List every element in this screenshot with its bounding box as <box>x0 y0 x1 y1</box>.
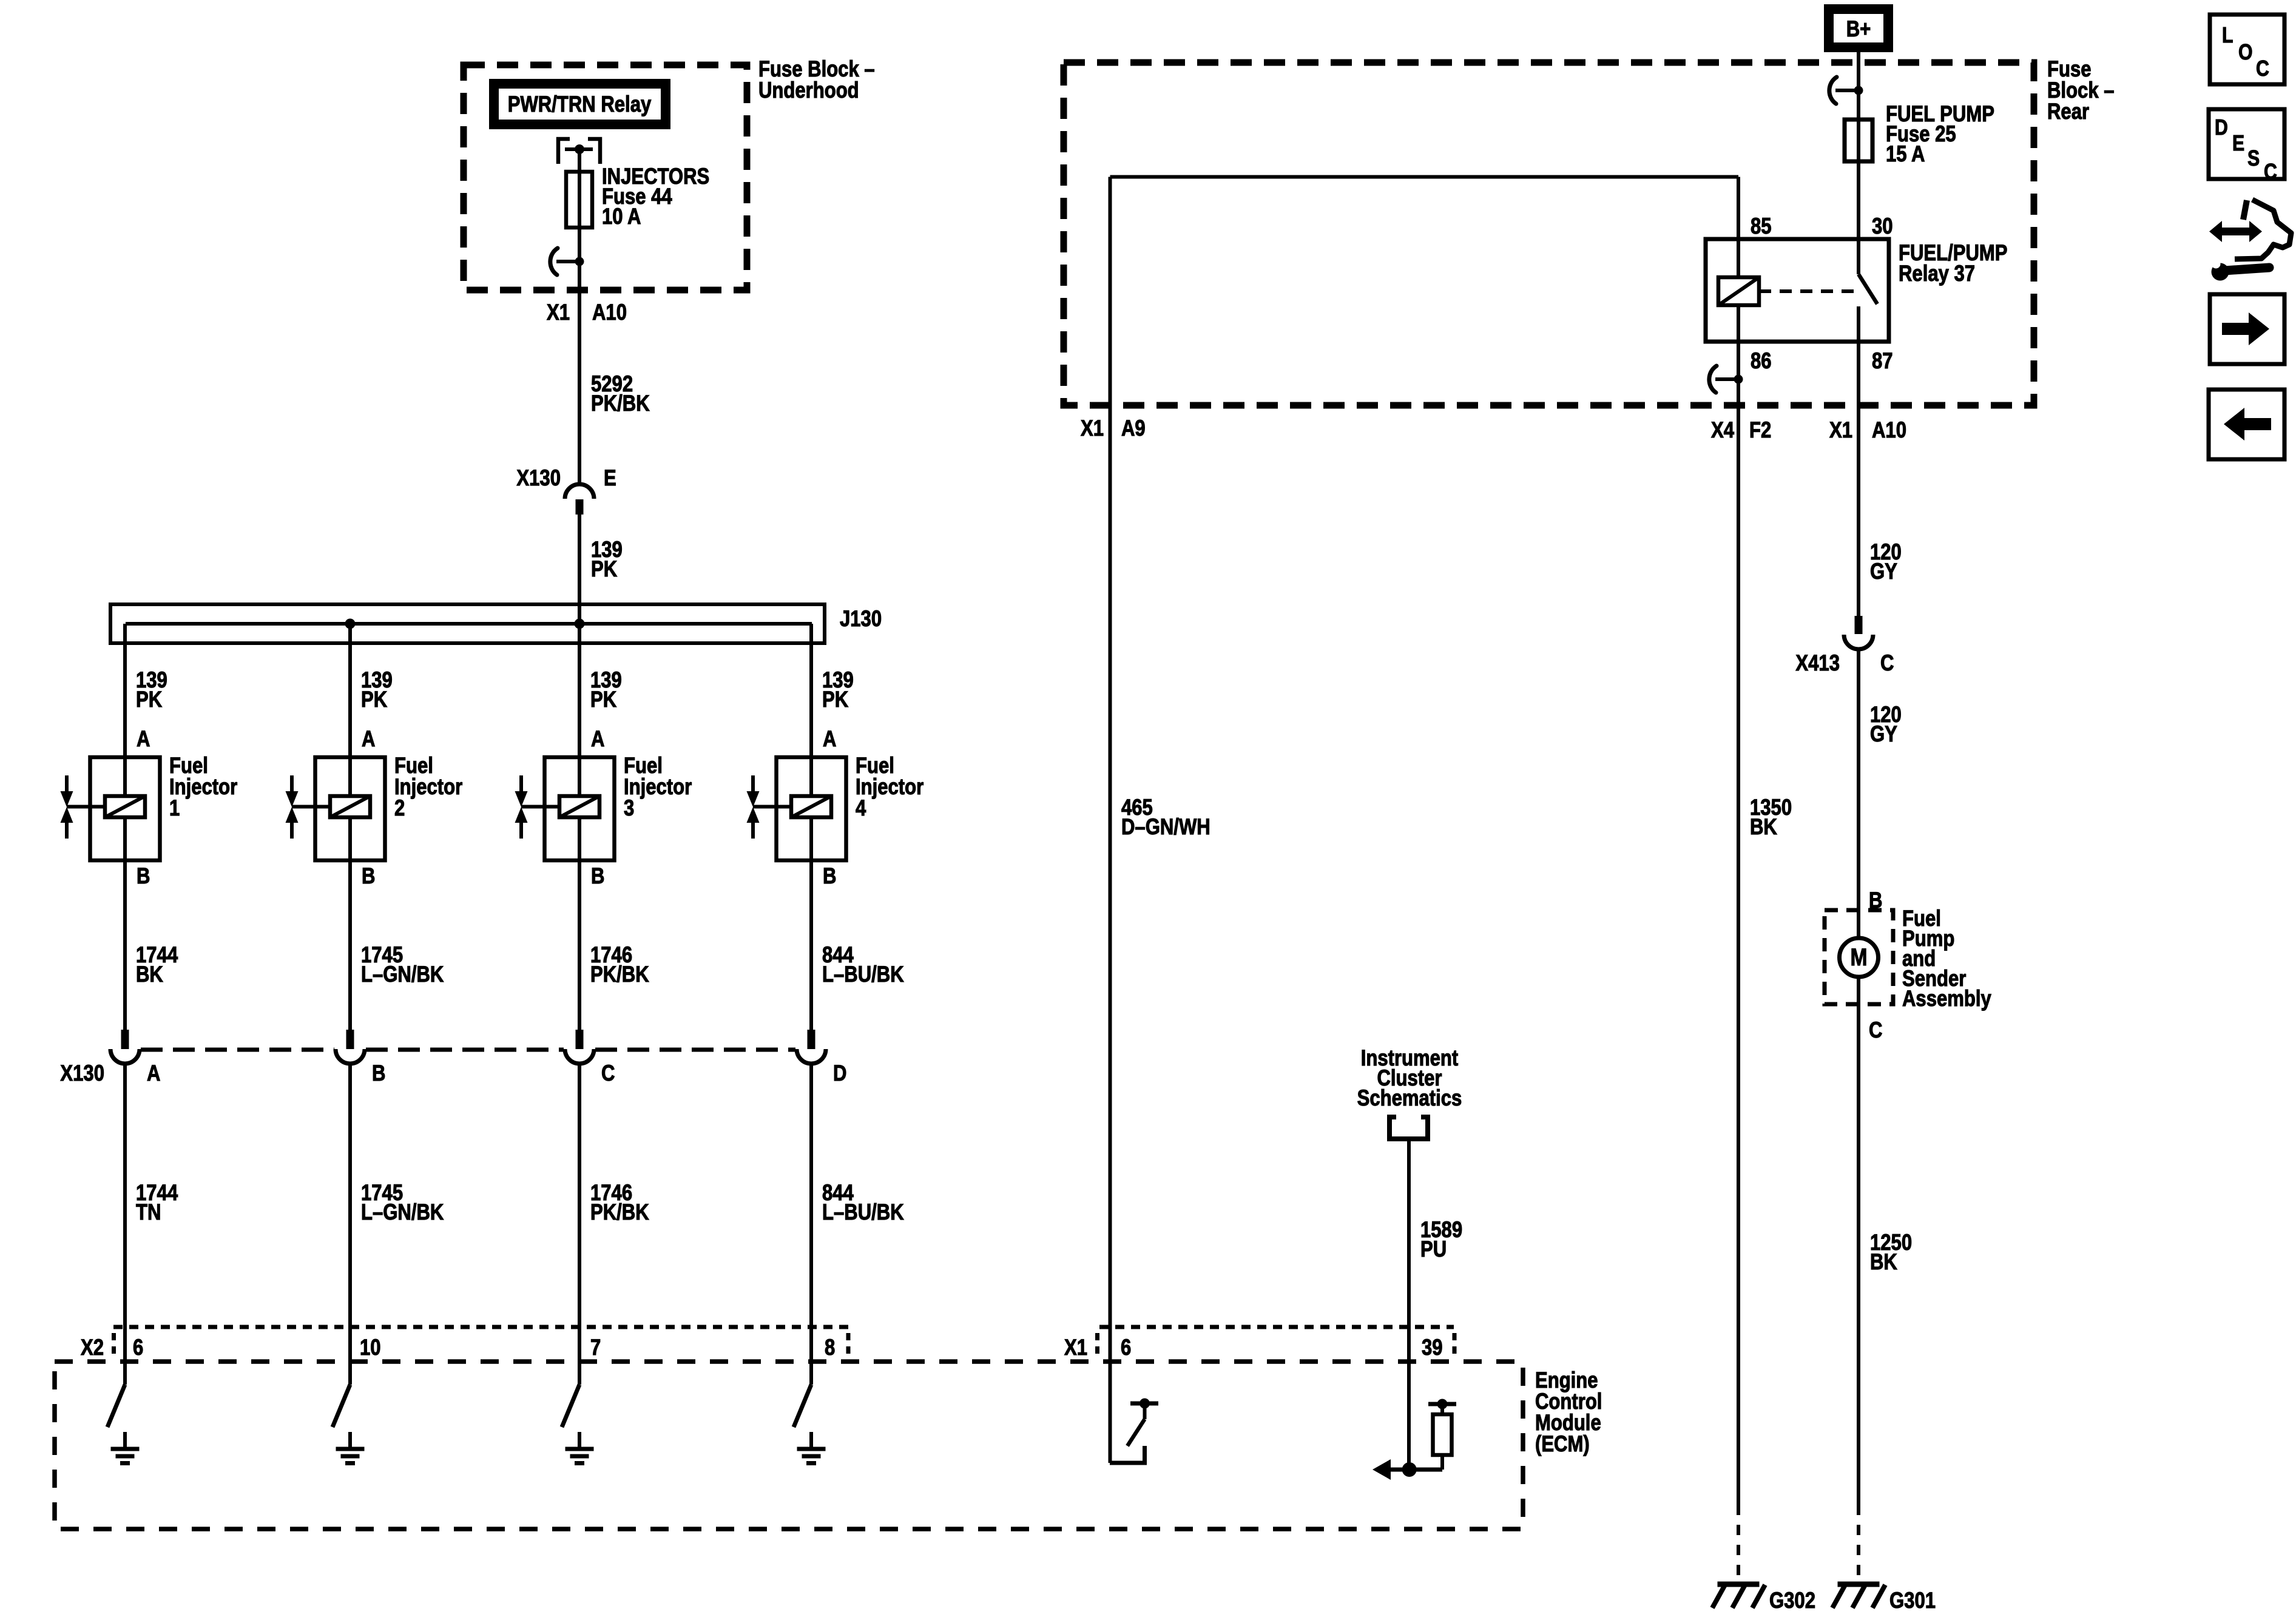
svg-text:PK/BK: PK/BK <box>590 962 649 987</box>
svg-text:X1: X1 <box>1064 1335 1087 1360</box>
svg-text:C: C <box>2264 160 2277 184</box>
svg-text:D–GN/WH: D–GN/WH <box>1121 815 1210 840</box>
svg-text:L–BU/BK: L–BU/BK <box>822 962 904 987</box>
svg-text:C: C <box>1880 651 1894 676</box>
svg-text:O: O <box>2238 41 2253 65</box>
svg-text:L: L <box>2222 24 2233 48</box>
svg-text:1: 1 <box>169 796 180 821</box>
svg-text:3: 3 <box>624 796 634 821</box>
svg-text:B+: B+ <box>1846 17 1871 42</box>
svg-text:6: 6 <box>1121 1335 1131 1360</box>
svg-text:L–GN/BK: L–GN/BK <box>361 962 444 987</box>
svg-text:D: D <box>2215 116 2228 140</box>
svg-text:B: B <box>372 1061 385 1086</box>
svg-text:Underhood: Underhood <box>758 78 859 103</box>
svg-text:30: 30 <box>1872 214 1893 239</box>
svg-text:G302: G302 <box>1769 1588 1815 1613</box>
svg-text:4: 4 <box>856 796 866 821</box>
svg-text:A10: A10 <box>592 300 627 325</box>
svg-text:86: 86 <box>1751 349 1772 374</box>
svg-text:85: 85 <box>1751 214 1772 239</box>
svg-text:L–BU/BK: L–BU/BK <box>822 1200 904 1225</box>
svg-text:C: C <box>601 1061 615 1086</box>
svg-text:PU: PU <box>1420 1237 1447 1262</box>
svg-text:C: C <box>1869 1018 1882 1043</box>
svg-text:15 A: 15 A <box>1886 142 1925 167</box>
svg-text:GY: GY <box>1870 559 1897 584</box>
svg-text:X1: X1 <box>1081 416 1104 441</box>
svg-text:PK: PK <box>136 687 162 712</box>
svg-text:A: A <box>823 727 836 752</box>
svg-text:B: B <box>362 864 375 889</box>
svg-text:Assembly: Assembly <box>1902 987 1991 1011</box>
svg-text:A: A <box>137 727 150 752</box>
svg-text:Rear: Rear <box>2047 100 2089 124</box>
svg-text:PK: PK <box>822 687 848 712</box>
svg-text:B: B <box>823 864 836 889</box>
svg-text:PK: PK <box>590 687 616 712</box>
svg-text:X4: X4 <box>1711 418 1734 443</box>
svg-text:A: A <box>591 727 604 752</box>
svg-text:39: 39 <box>1422 1335 1443 1360</box>
svg-text:D: D <box>833 1061 846 1086</box>
svg-text:G301: G301 <box>1889 1588 1936 1613</box>
svg-text:10: 10 <box>360 1335 381 1360</box>
svg-text:PK: PK <box>591 557 617 582</box>
svg-text:X2: X2 <box>81 1335 104 1360</box>
svg-text:2: 2 <box>394 796 405 821</box>
svg-text:L–GN/BK: L–GN/BK <box>361 1200 444 1225</box>
svg-text:6: 6 <box>133 1335 143 1360</box>
svg-text:J130: J130 <box>840 607 882 632</box>
svg-text:X130: X130 <box>516 466 561 491</box>
svg-text:PK: PK <box>361 687 387 712</box>
svg-text:X1: X1 <box>1829 418 1852 443</box>
svg-text:E: E <box>2232 132 2244 156</box>
svg-text:F2: F2 <box>1749 418 1771 443</box>
svg-text:Relay 37: Relay 37 <box>1899 262 1975 286</box>
svg-text:7: 7 <box>590 1335 601 1360</box>
svg-text:(ECM): (ECM) <box>1535 1432 1590 1457</box>
svg-text:X130: X130 <box>60 1061 104 1086</box>
svg-text:A10: A10 <box>1872 418 1906 443</box>
svg-text:PK/BK: PK/BK <box>590 1200 649 1225</box>
svg-text:X1: X1 <box>547 300 570 325</box>
svg-text:Schematics: Schematics <box>1357 1086 1462 1111</box>
svg-text:PWR/TRN Relay: PWR/TRN Relay <box>508 92 652 117</box>
svg-text:TN: TN <box>136 1200 161 1225</box>
svg-text:BK: BK <box>136 962 163 987</box>
svg-text:B: B <box>137 864 150 889</box>
svg-text:A: A <box>147 1061 160 1086</box>
svg-text:C: C <box>2256 57 2269 81</box>
svg-text:E: E <box>604 466 616 491</box>
svg-text:A: A <box>362 727 375 752</box>
svg-text:87: 87 <box>1872 349 1893 374</box>
svg-text:PK/BK: PK/BK <box>591 391 650 416</box>
svg-text:10 A: 10 A <box>602 204 641 229</box>
svg-text:X413: X413 <box>1795 651 1840 676</box>
svg-text:B: B <box>591 864 604 889</box>
svg-text:M: M <box>1851 944 1868 970</box>
svg-text:GY: GY <box>1870 722 1897 747</box>
svg-text:A9: A9 <box>1121 416 1146 441</box>
svg-text:BK: BK <box>1870 1250 1897 1275</box>
svg-text:S: S <box>2247 147 2260 171</box>
svg-text:BK: BK <box>1750 815 1777 840</box>
svg-text:8: 8 <box>825 1335 835 1360</box>
